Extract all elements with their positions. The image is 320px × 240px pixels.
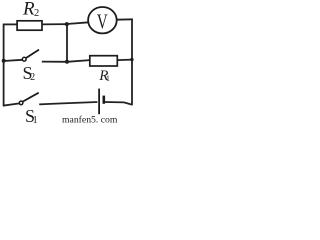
voltmeter U1 circle [88,7,117,33]
wire: node B to R1 [67,60,90,62]
wire: node A to voltmeter [67,22,89,24]
wire: row 2 left segment to switch S2 [4,60,23,61]
wire: top-left horizontal into R2 [3,23,17,25]
svg-text:1: 1 [106,74,110,83]
resistor R1 [90,56,118,66]
wire: voltmeter to top-right corner [117,18,133,20]
wire: battery to bottom-right corner [105,102,132,105]
switch S2 lever [26,50,39,59]
battery BT1 long plate [98,89,100,115]
switch S2 contact circle [22,57,26,61]
svg-text:2: 2 [34,8,39,19]
battery BT1 short thick plate [103,96,106,104]
svg-text:1: 1 [33,115,38,125]
svg-text:2: 2 [30,72,35,83]
node: left bus / row 2 junction dot [2,59,6,63]
wire: R1 to right bus [117,59,132,62]
node A (junction dot, top) [65,22,69,26]
switch S1 lever [23,93,39,102]
wire: right vertical bus [131,19,133,105]
wire: vertical from node A down to row 2 [66,24,68,62]
wire: bottom-left corner to switch S1 [3,103,20,105]
wire: row 2 from switch S2 to node B [42,61,67,63]
svg-text:V: V [97,10,108,34]
node: right bus / R1 junction dot [130,58,133,61]
resistor R2 [17,21,42,30]
svg-text:manfen5. com: manfen5. com [62,114,118,125]
switch S1 contact circle [19,101,23,105]
wire: R2 to node A [42,23,67,25]
node B (junction dot, row 2) [65,60,69,64]
wire: left vertical bus [3,24,5,105]
wire: row 3 from switch S1 to battery [39,102,97,104]
